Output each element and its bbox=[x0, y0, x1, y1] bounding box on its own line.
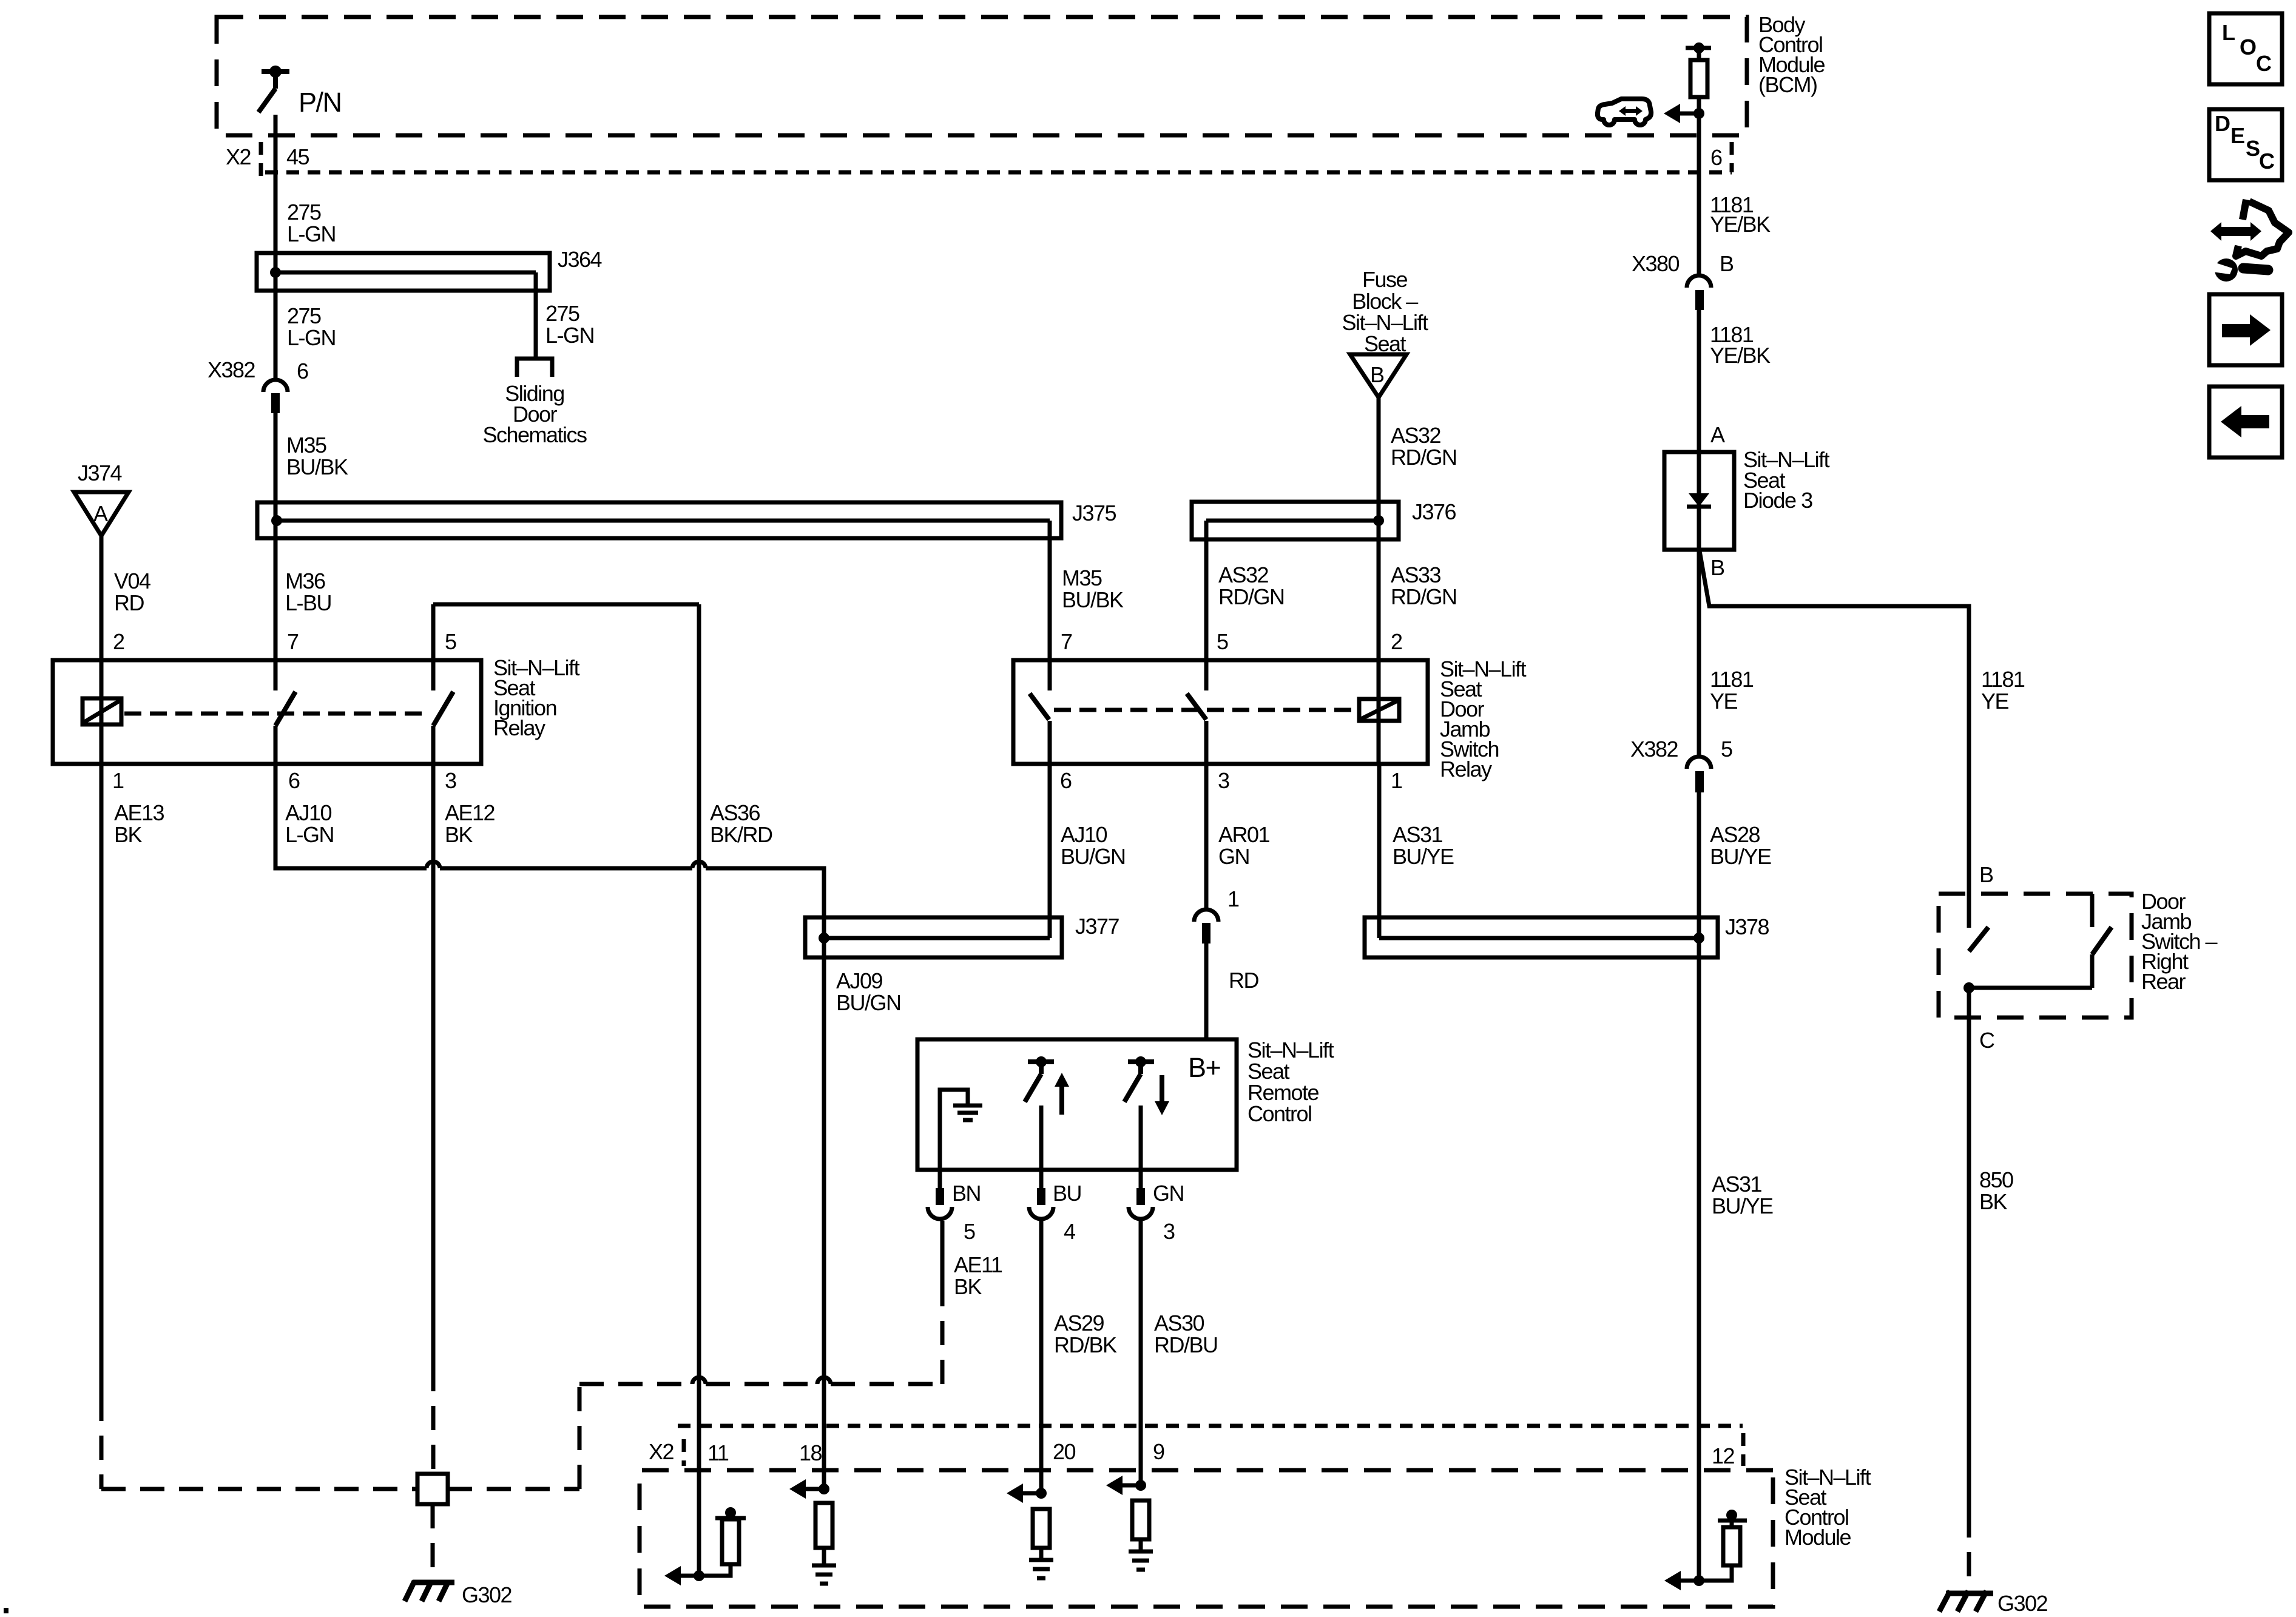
svg-text:2: 2 bbox=[1391, 629, 1402, 654]
svg-text:AS32: AS32 bbox=[1218, 562, 1269, 587]
svg-text:GN: GN bbox=[1153, 1181, 1184, 1206]
svg-text:YE: YE bbox=[1981, 689, 2009, 714]
svg-text:X2: X2 bbox=[226, 144, 251, 169]
svg-text:5: 5 bbox=[1217, 629, 1228, 654]
svg-text:AE13: AE13 bbox=[114, 800, 164, 825]
svg-text:6: 6 bbox=[1060, 768, 1072, 793]
svg-text:X2: X2 bbox=[649, 1439, 674, 1464]
svg-text:M35: M35 bbox=[1062, 565, 1102, 590]
svg-text:YE/BK: YE/BK bbox=[1710, 343, 1771, 368]
svg-text:AE11: AE11 bbox=[954, 1252, 1002, 1277]
svg-text:Diode 3: Diode 3 bbox=[1743, 488, 1812, 513]
svg-text:RD: RD bbox=[1229, 968, 1258, 993]
svg-text:RD/BU: RD/BU bbox=[1154, 1332, 1218, 1357]
svg-text:RD/BK: RD/BK bbox=[1054, 1332, 1117, 1357]
svg-text:AS33: AS33 bbox=[1391, 562, 1441, 587]
svg-text:BU/YE: BU/YE bbox=[1710, 844, 1771, 869]
svg-text:AJ09: AJ09 bbox=[836, 968, 883, 993]
svg-text:L: L bbox=[2222, 20, 2235, 45]
svg-text:850: 850 bbox=[1979, 1167, 2013, 1192]
svg-text:AJ10: AJ10 bbox=[1061, 822, 1107, 847]
svg-text:Relay: Relay bbox=[1440, 757, 1492, 781]
svg-text:L-GN: L-GN bbox=[287, 221, 336, 246]
svg-text:1: 1 bbox=[112, 768, 124, 793]
svg-text:BU/GN: BU/GN bbox=[1061, 844, 1126, 869]
svg-text:C: C bbox=[2259, 149, 2275, 174]
svg-text:AS30: AS30 bbox=[1154, 1311, 1204, 1335]
svg-text:Schematics: Schematics bbox=[482, 422, 587, 447]
svg-text:275: 275 bbox=[287, 200, 321, 224]
svg-text:45: 45 bbox=[286, 144, 309, 169]
svg-text:4: 4 bbox=[1064, 1219, 1075, 1244]
svg-text:V04: V04 bbox=[114, 569, 150, 593]
svg-text:2: 2 bbox=[113, 629, 124, 654]
svg-text:18: 18 bbox=[799, 1440, 822, 1465]
svg-text:7: 7 bbox=[287, 629, 299, 654]
svg-text:AS28: AS28 bbox=[1710, 822, 1760, 847]
svg-text:275: 275 bbox=[545, 301, 579, 326]
svg-text:J364: J364 bbox=[558, 247, 602, 272]
svg-text:J377: J377 bbox=[1075, 914, 1119, 939]
svg-text:BK: BK bbox=[114, 822, 143, 847]
svg-text:GN: GN bbox=[1218, 844, 1249, 869]
svg-text:G302: G302 bbox=[462, 1582, 512, 1607]
svg-text:6: 6 bbox=[297, 359, 308, 383]
svg-text:B: B bbox=[1370, 362, 1384, 387]
svg-text:AJ10: AJ10 bbox=[285, 800, 332, 825]
svg-text:5: 5 bbox=[964, 1219, 975, 1244]
svg-text:Rear: Rear bbox=[2141, 969, 2186, 994]
svg-text:11: 11 bbox=[707, 1440, 729, 1465]
svg-text:B: B bbox=[1720, 251, 1734, 276]
svg-text:BU/GN: BU/GN bbox=[836, 990, 901, 1015]
svg-text:6: 6 bbox=[288, 768, 300, 793]
svg-text:5: 5 bbox=[1721, 737, 1732, 761]
svg-text:D: D bbox=[2215, 111, 2230, 136]
svg-text:C: C bbox=[2256, 51, 2272, 76]
svg-text:A: A bbox=[93, 501, 108, 526]
svg-text:5: 5 bbox=[445, 629, 456, 654]
svg-text:X380: X380 bbox=[1632, 251, 1680, 276]
svg-text:J375: J375 bbox=[1072, 501, 1116, 525]
svg-text:9: 9 bbox=[1153, 1439, 1164, 1464]
svg-text:L-GN: L-GN bbox=[287, 325, 336, 350]
svg-text:BK/RD: BK/RD bbox=[710, 822, 772, 847]
svg-text:6: 6 bbox=[1710, 145, 1722, 170]
svg-text:RD/GN: RD/GN bbox=[1218, 584, 1285, 609]
svg-text:AS31: AS31 bbox=[1712, 1172, 1762, 1197]
svg-text:3: 3 bbox=[1163, 1219, 1175, 1244]
svg-text:BN: BN bbox=[952, 1181, 981, 1206]
svg-text:3: 3 bbox=[445, 768, 456, 793]
svg-text:YE/BK: YE/BK bbox=[1710, 212, 1771, 237]
svg-text:1181: 1181 bbox=[1710, 667, 1754, 692]
svg-text:BU/YE: BU/YE bbox=[1712, 1193, 1773, 1218]
svg-text:M36: M36 bbox=[285, 569, 325, 593]
svg-text:J376: J376 bbox=[1412, 499, 1456, 524]
svg-text:L-GN: L-GN bbox=[285, 822, 334, 847]
svg-text:AS36: AS36 bbox=[710, 800, 760, 825]
svg-text:BK: BK bbox=[1979, 1189, 2008, 1214]
svg-text:(BCM): (BCM) bbox=[1758, 72, 1817, 97]
svg-text:AE12: AE12 bbox=[445, 800, 495, 825]
svg-text:O: O bbox=[2240, 35, 2256, 59]
svg-text:12: 12 bbox=[1712, 1443, 1735, 1468]
svg-text:RD/GN: RD/GN bbox=[1391, 584, 1457, 609]
svg-text:E: E bbox=[2230, 123, 2244, 148]
svg-text:7: 7 bbox=[1061, 629, 1072, 654]
svg-text:1: 1 bbox=[1391, 768, 1402, 793]
svg-text:YE: YE bbox=[1710, 689, 1738, 714]
svg-text:275: 275 bbox=[287, 303, 321, 328]
svg-text:L-GN: L-GN bbox=[545, 323, 594, 348]
svg-text:RD: RD bbox=[114, 590, 144, 615]
svg-text:X382: X382 bbox=[208, 357, 255, 382]
svg-text:P/N: P/N bbox=[299, 87, 342, 118]
svg-text:BU/BK: BU/BK bbox=[1062, 587, 1124, 612]
svg-text:BU: BU bbox=[1053, 1181, 1081, 1206]
svg-text:B+: B+ bbox=[1188, 1052, 1221, 1083]
svg-text:3: 3 bbox=[1218, 768, 1229, 793]
svg-text:B: B bbox=[1979, 862, 1993, 887]
svg-text:BU/BK: BU/BK bbox=[286, 454, 348, 479]
svg-text:Control: Control bbox=[1248, 1101, 1312, 1126]
svg-text:L-BU: L-BU bbox=[285, 590, 331, 615]
svg-text:AS31: AS31 bbox=[1393, 822, 1443, 847]
svg-text:BU/YE: BU/YE bbox=[1393, 844, 1454, 869]
svg-text:Relay: Relay bbox=[493, 715, 545, 740]
svg-text:J374: J374 bbox=[78, 461, 122, 485]
svg-text:M35: M35 bbox=[286, 433, 326, 457]
svg-text:AS32: AS32 bbox=[1391, 423, 1441, 448]
svg-text:AR01: AR01 bbox=[1218, 822, 1270, 847]
svg-text:BK: BK bbox=[954, 1274, 982, 1299]
svg-text:J378: J378 bbox=[1725, 914, 1769, 939]
svg-text:X382: X382 bbox=[1630, 737, 1678, 761]
svg-text:RD/GN: RD/GN bbox=[1391, 445, 1457, 470]
svg-text:AS29: AS29 bbox=[1054, 1311, 1104, 1335]
svg-text:C: C bbox=[1979, 1028, 1994, 1053]
svg-text:Module: Module bbox=[1784, 1525, 1851, 1550]
svg-text:A: A bbox=[1710, 422, 1725, 447]
svg-text:1181: 1181 bbox=[1981, 667, 2025, 692]
svg-text:Fuse: Fuse bbox=[1362, 267, 1408, 292]
svg-text:G302: G302 bbox=[1997, 1591, 2048, 1616]
svg-text:B: B bbox=[1710, 555, 1724, 580]
svg-text:S: S bbox=[2246, 136, 2260, 161]
svg-text:BK: BK bbox=[445, 822, 473, 847]
svg-text:1: 1 bbox=[1227, 886, 1239, 911]
svg-text:20: 20 bbox=[1053, 1439, 1076, 1464]
